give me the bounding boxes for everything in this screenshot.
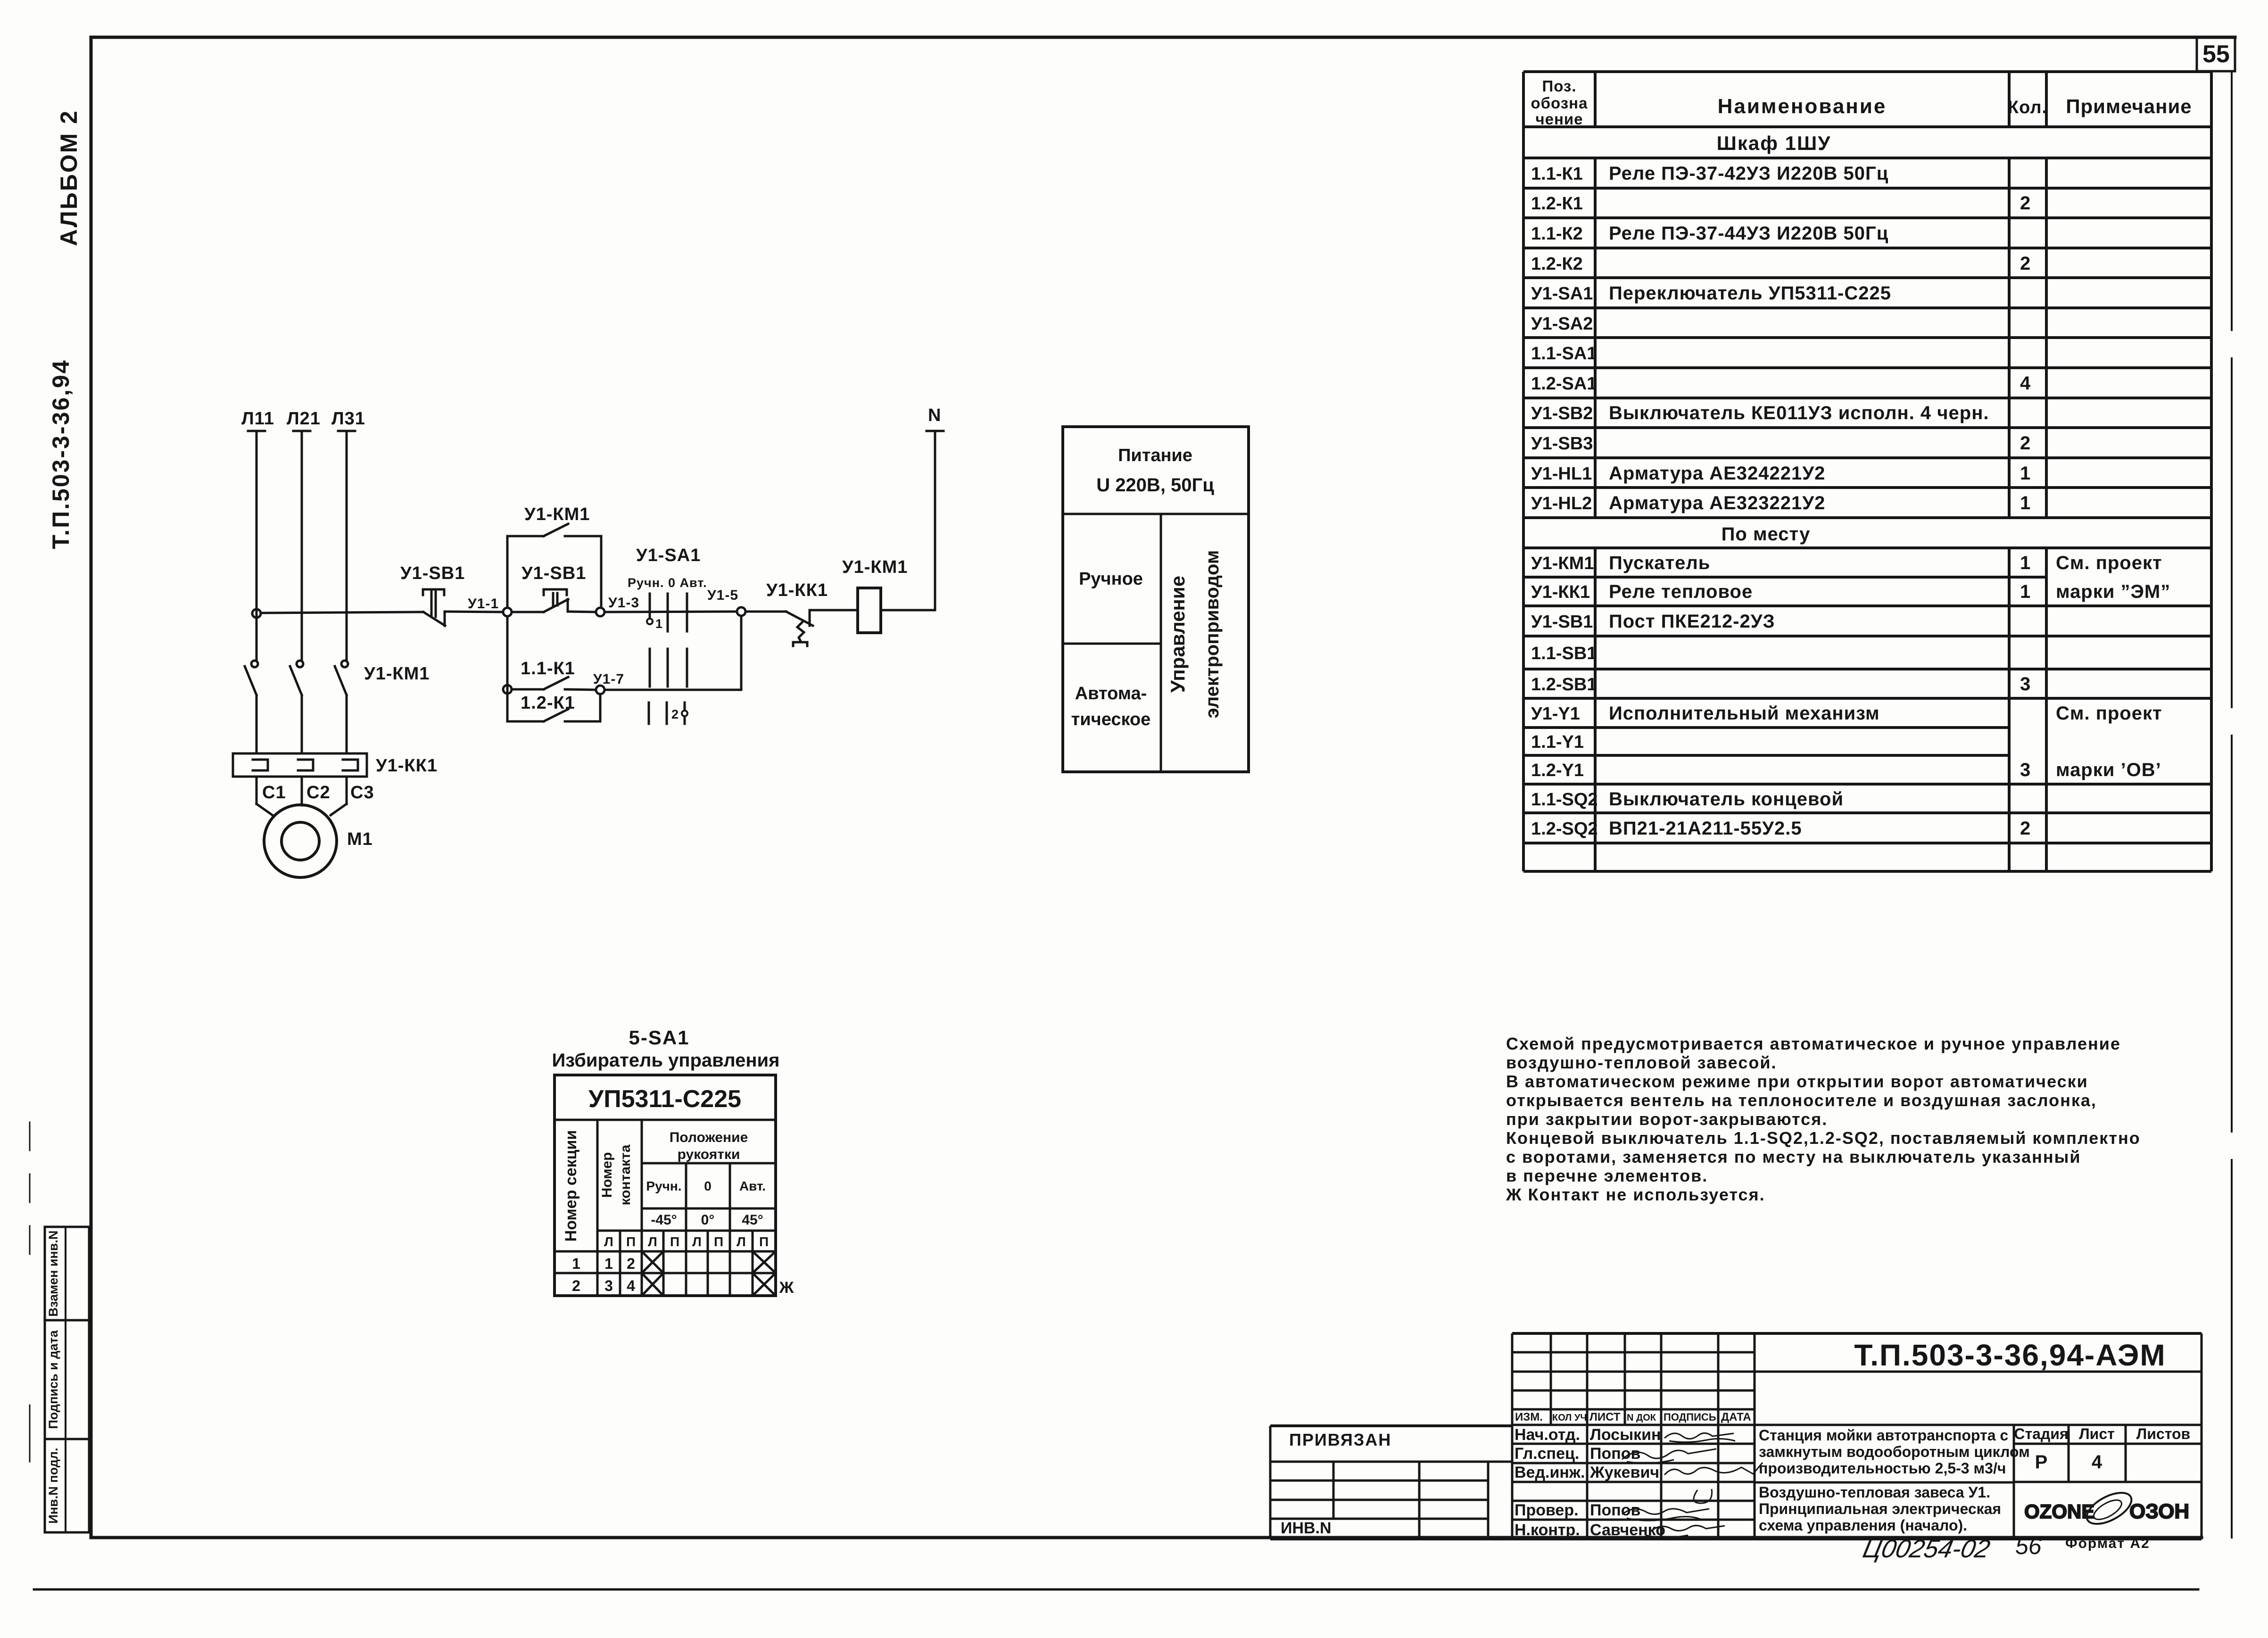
svg-text:0: 0 — [704, 1179, 712, 1193]
project name lines — [1759, 1427, 2030, 1534]
svg-text:1.1-К1: 1.1-К1 — [1531, 164, 1583, 184]
svg-text:ПОДПИСЬ: ПОДПИСЬ — [1664, 1411, 1716, 1423]
svg-text:Выключатель концевой: Выключатель концевой — [1609, 789, 1844, 810]
svg-text:Ручн.: Ручн. — [646, 1179, 681, 1193]
svg-text:Управление: Управление — [1167, 576, 1189, 693]
svg-text:Л31: Л31 — [331, 409, 365, 429]
motor M1 outer circle — [264, 805, 337, 877]
margin dashes — [29, 1122, 31, 1462]
svg-text:М1: М1 — [347, 829, 373, 849]
heater element at x=544 — [253, 760, 268, 770]
svg-text:Концевой выключатель 1.1-SQ2,1: Концевой выключатель 1.1-SQ2,1.2-SQ2, по… — [1506, 1128, 2141, 1148]
svg-text:Т.П.503-3-36,94: Т.П.503-3-36,94 — [48, 359, 74, 549]
svg-text:производительностью 2,5-3 м3/ч: производительностью 2,5-3 м3/ч — [1759, 1460, 2006, 1477]
title block grid — [1270, 1333, 2202, 1539]
wire below heater x=544 — [256, 777, 258, 804]
wire: stop button to node У1-1 — [445, 612, 503, 612]
sheet bottom border — [91, 1536, 2202, 1539]
svg-text:Ручн. 0 Авт.: Ручн. 0 Авт. — [628, 576, 707, 590]
svg-text:1.1-Y1: 1.1-Y1 — [1531, 732, 1584, 752]
wire below heater x=640 — [301, 777, 303, 804]
svg-text:Исполнительный механизм: Исполнительный механизм — [1609, 703, 1880, 724]
svg-text:1: 1 — [2020, 493, 2031, 513]
phase line Л21 — [293, 431, 310, 660]
svg-text:1.1-К1: 1.1-К1 — [521, 659, 575, 678]
svg-text:Формат А2: Формат А2 — [2065, 1536, 2150, 1551]
power-supply legend box — [1063, 427, 1249, 772]
svg-text:1.1-К2: 1.1-К2 — [1531, 224, 1583, 244]
seal-in branch: aux contact У1-КМ1 — [507, 524, 601, 608]
deck 1 closed-position circle (contact 1) — [647, 619, 653, 624]
svg-text:Шкаф 1ШУ: Шкаф 1ШУ — [1717, 132, 1831, 154]
node У1-7 — [596, 686, 604, 694]
svg-text:OZONE: OZONE — [2024, 1500, 2094, 1522]
sheet right border (broken scan line) — [2231, 73, 2233, 1538]
selector У1-SA1 deck 2 position strokes (above wire) — [650, 649, 687, 687]
svg-text:Станция мойки автотранспорта с: Станция мойки автотранспорта с — [1759, 1427, 2008, 1444]
svg-text:56: 56 — [2015, 1533, 2042, 1559]
svg-text:Реле ПЭ-37-42УЗ И220В 50Гц: Реле ПЭ-37-42УЗ И220В 50Гц — [1609, 163, 1888, 184]
svg-text:45°: 45° — [742, 1212, 763, 1228]
svg-text:Жукевич: Жукевич — [1589, 1464, 1659, 1481]
phase line Л11 — [248, 431, 265, 660]
svg-text:марки ’ОВ’: марки ’ОВ’ — [2056, 760, 2161, 780]
svg-text:С3: С3 — [350, 783, 374, 802]
svg-text:У1-7: У1-7 — [593, 671, 624, 687]
svg-text:с воротами, заменяется по мест: с воротами, заменяется по месту на выклю… — [1506, 1147, 2081, 1166]
svg-text:55: 55 — [2202, 41, 2230, 68]
wire: coil to N — [881, 609, 935, 612]
node У1-3 — [596, 608, 604, 616]
svg-text:марки ”ЭМ”: марки ”ЭМ” — [2056, 581, 2170, 602]
phase line Л31 — [338, 431, 355, 660]
svg-text:У1-КК1: У1-КК1 — [766, 580, 828, 600]
svg-text:1.2-К1: 1.2-К1 — [1531, 194, 1583, 214]
svg-text:ЛИСТ: ЛИСТ — [1589, 1411, 1621, 1423]
svg-text:Переключатель УП5311-С225: Переключатель УП5311-С225 — [1609, 283, 1891, 304]
heater element at x=735 — [343, 760, 358, 770]
svg-text:Ж Контакт не используется.: Ж Контакт не используется. — [1506, 1185, 1765, 1204]
svg-text:Автома-: Автома- — [1075, 684, 1147, 703]
svg-text:1.2-SQ2: 1.2-SQ2 — [1531, 819, 1598, 839]
wire below heater x=735 — [346, 777, 348, 804]
sheet outer bottom edge line — [34, 1588, 2198, 1591]
svg-text:Пускатель: Пускатель — [1609, 553, 1710, 573]
svg-text:У1-КМ1: У1-КМ1 — [842, 557, 908, 577]
svg-text:5-SA1: 5-SA1 — [629, 1026, 689, 1049]
svg-text:тическое: тическое — [1071, 710, 1151, 729]
svg-text:С1: С1 — [262, 783, 286, 802]
svg-text:Л: Л — [648, 1234, 657, 1249]
svg-text:1: 1 — [2020, 553, 2031, 573]
svg-text:1.2-К2: 1.2-К2 — [1531, 254, 1583, 274]
svg-text:1: 1 — [572, 1255, 580, 1272]
X marks — [642, 1251, 663, 1273]
svg-text:Л21: Л21 — [287, 409, 321, 429]
svg-text:С2: С2 — [306, 783, 331, 802]
svg-text:Авт.: Авт. — [739, 1179, 766, 1193]
svg-text:У1-КМ1: У1-КМ1 — [524, 505, 590, 524]
svg-text:-45°: -45° — [651, 1212, 677, 1228]
svg-text:П: П — [714, 1234, 723, 1249]
svg-text:4: 4 — [2092, 1452, 2102, 1473]
svg-text:Провер.: Провер. — [1515, 1501, 1579, 1519]
svg-text:У1-КК1: У1-КК1 — [376, 756, 438, 776]
svg-text:У1-SA1: У1-SA1 — [1531, 284, 1593, 304]
svg-text:N: N — [928, 405, 941, 425]
svg-text:обозна: обозна — [1531, 94, 1588, 112]
svg-text:Питание: Питание — [1118, 446, 1192, 465]
relay contact 1.1-К1 (NO) — [512, 677, 596, 690]
svg-text:чение: чение — [1535, 110, 1583, 128]
svg-text:ВП21-21А211-55У2.5: ВП21-21А211-55У2.5 — [1609, 818, 1802, 839]
svg-text:По месту: По месту — [1722, 524, 1811, 545]
svg-text:Пост ПКЕ212-2УЗ: Пост ПКЕ212-2УЗ — [1609, 611, 1775, 632]
wire: start button to node У1-3 — [568, 612, 596, 612]
svg-text:Н.контр.: Н.контр. — [1515, 1521, 1580, 1539]
pushbutton У1-SB1 (stop, NC) — [423, 589, 445, 626]
svg-text:Номер: Номер — [599, 1152, 615, 1198]
svg-text:3: 3 — [2020, 674, 2031, 695]
svg-text:Принципиальная электрическая: Принципиальная электрическая — [1759, 1500, 2001, 1517]
svg-text:Подпись и дата: Подпись и дата — [46, 1330, 60, 1429]
svg-text:Л: Л — [737, 1234, 746, 1249]
svg-text:КОЛ УЧ: КОЛ УЧ — [1552, 1413, 1587, 1423]
svg-text:Р: Р — [2035, 1452, 2048, 1473]
svg-text:1.1-SB1: 1.1-SB1 — [1531, 644, 1597, 663]
svg-text:Воздушно-тепловая завеса У1.: Воздушно-тепловая завеса У1. — [1759, 1484, 1990, 1501]
page number box — [2197, 39, 2235, 71]
svg-text:ИЗМ.: ИЗМ. — [1515, 1411, 1543, 1423]
svg-text:У1-КМ1: У1-КМ1 — [364, 664, 430, 684]
thermal relay contact У1-КК1 (NC) — [786, 610, 813, 646]
svg-text:контакта: контакта — [618, 1144, 633, 1205]
svg-text:N ДОК: N ДОК — [1627, 1413, 1656, 1423]
svg-text:Реле ПЭ-37-44УЗ И220В 50Гц: Реле ПЭ-37-44УЗ И220В 50Гц — [1609, 223, 1888, 244]
svg-text:Реле тепловое: Реле тепловое — [1609, 581, 1753, 602]
node on Л11 (control tap) — [252, 609, 261, 618]
svg-text:ОЗОН: ОЗОН — [2129, 1500, 2189, 1523]
motor feeder wires converge — [257, 804, 273, 815]
svg-text:Л11: Л11 — [241, 409, 274, 429]
contactor У1-КМ1 main contact at x=735 — [341, 661, 348, 667]
relay contact 1.2-К1 (NO) — [507, 694, 600, 721]
svg-text:Положение: Положение — [670, 1130, 748, 1145]
svg-text:2: 2 — [2020, 433, 2031, 454]
svg-text:2: 2 — [2020, 193, 2031, 214]
svg-text:1.1-SA1: 1.1-SA1 — [1531, 344, 1597, 364]
svg-text:2: 2 — [2020, 253, 2031, 274]
svg-text:0°: 0° — [701, 1212, 715, 1228]
svg-text:Лосыкин: Лосыкин — [1590, 1426, 1661, 1444]
svg-text:2: 2 — [671, 707, 679, 721]
neutral line N — [927, 431, 944, 610]
svg-text:Л: Л — [604, 1234, 613, 1249]
svg-text:Гл.спец.: Гл.спец. — [1515, 1445, 1579, 1463]
svg-text:2: 2 — [2020, 818, 2031, 839]
svg-text:У1-SA1: У1-SA1 — [636, 546, 701, 565]
pushbutton У1-SB1 (start, NO) — [544, 589, 568, 612]
svg-text:Взамен инв.N: Взамен инв.N — [46, 1231, 60, 1317]
wire: У1-5 to thermal contact — [745, 611, 786, 613]
sheet top border — [92, 36, 2235, 39]
svg-text:схема управления (начало).: схема управления (начало). — [1759, 1517, 1967, 1534]
svg-text:Ж: Ж — [779, 1279, 794, 1297]
svg-text:См. проект: См. проект — [2056, 703, 2162, 724]
svg-text:в перечне элементов.: в перечне элементов. — [1506, 1166, 1708, 1185]
svg-text:У1-HL2: У1-HL2 — [1531, 494, 1592, 513]
svg-text:В автоматическом режиме при от: В автоматическом режиме при открытии вор… — [1506, 1072, 2088, 1091]
svg-text:Лист: Лист — [2079, 1425, 2115, 1442]
svg-text:Т.П.503-3-36,94-АЭМ: Т.П.503-3-36,94-АЭМ — [1854, 1338, 2166, 1372]
svg-text:АЛЬБОМ 2: АЛЬБОМ 2 — [56, 109, 82, 246]
svg-text:УП5311-С225: УП5311-С225 — [588, 1085, 741, 1113]
svg-text:Ц00254-02: Ц00254-02 — [1860, 1535, 1992, 1563]
svg-text:См. проект: См. проект — [2056, 553, 2162, 573]
parts table grid — [1523, 72, 2211, 871]
svg-text:Л: Л — [692, 1234, 702, 1249]
svg-text:1.2-SB1: 1.2-SB1 — [1531, 675, 1597, 695]
automatic branch vertical from У1-1 — [506, 616, 509, 721]
wire: node to stop button — [261, 612, 423, 613]
svg-text:открывается вентель на теплоно: открывается вентель на теплоносителе и в… — [1506, 1091, 2097, 1110]
margin box "Подпись и дата" — [45, 1320, 89, 1439]
svg-text:У1-КК1: У1-КК1 — [1531, 582, 1590, 602]
svg-text:Нач.отд.: Нач.отд. — [1515, 1426, 1580, 1444]
svg-text:1.2-SA1: 1.2-SA1 — [1531, 374, 1597, 394]
svg-text:1.1-SQ2: 1.1-SQ2 — [1531, 790, 1598, 810]
svg-text:Инв.N подл.: Инв.N подл. — [46, 1448, 60, 1523]
svg-text:Кол.: Кол. — [2008, 98, 2047, 117]
svg-text:1: 1 — [655, 617, 663, 631]
selector deck 2 strokes below wire + closed circle (contact 2) — [649, 703, 685, 724]
svg-text:Вед.инж.: Вед.инж. — [1515, 1464, 1585, 1481]
svg-text:У1-SB1: У1-SB1 — [400, 563, 465, 583]
svg-text:У1-SB1: У1-SB1 — [1531, 612, 1593, 632]
svg-text:Ручное: Ручное — [1079, 569, 1143, 589]
svg-text:1: 1 — [604, 1255, 613, 1272]
wire: У1-7 through selector deck 2 to У1-5 — [604, 616, 741, 690]
margin box "Инв.N подл." — [45, 1439, 89, 1532]
sheet left border — [90, 37, 93, 1538]
svg-text:Арматура АЕ323221У2: Арматура АЕ323221У2 — [1609, 493, 1825, 513]
svg-text:Избиратель управления: Избиратель управления — [552, 1050, 780, 1071]
node У1-1 — [503, 608, 512, 616]
svg-text:Поз.: Поз. — [1542, 77, 1576, 95]
node at 1.1-K1 branch — [503, 685, 512, 694]
selector У1-SA1 deck 1 position strokes — [650, 594, 687, 631]
contactor У1-КМ1 main contact at x=640 — [297, 661, 303, 667]
wire: У1-3 through selector to У1-5 — [604, 612, 737, 612]
svg-text:электроприводом: электроприводом — [1202, 550, 1223, 719]
svg-text:Примечание: Примечание — [2066, 95, 2192, 117]
selector table grid — [555, 1075, 776, 1296]
svg-text:Стадия: Стадия — [2014, 1425, 2068, 1442]
svg-text:ИНВ.N: ИНВ.N — [1281, 1519, 1332, 1537]
svg-text:2: 2 — [627, 1255, 635, 1272]
svg-text:1: 1 — [2020, 463, 2031, 484]
svg-text:У1-1: У1-1 — [468, 596, 499, 612]
contactor У1-КМ1 main contact at x=544 — [251, 661, 258, 667]
signatures (scribbles) — [1622, 1433, 1763, 1538]
svg-text:1.2-К1: 1.2-К1 — [521, 693, 575, 713]
notes text block — [1506, 1034, 2141, 1204]
svg-text:Схемой предусмотривается автом: Схемой предусмотривается автоматическое … — [1506, 1034, 2121, 1053]
svg-text:3: 3 — [2020, 760, 2031, 780]
svg-text:Арматура АЕ324221У2: Арматура АЕ324221У2 — [1609, 463, 1825, 484]
svg-text:У1-Y1: У1-Y1 — [1531, 704, 1580, 724]
svg-text:Номер секции: Номер секции — [562, 1130, 580, 1242]
svg-text:4: 4 — [2020, 373, 2031, 394]
svg-text:замкнутым водооборотным циклом: замкнутым водооборотным циклом — [1759, 1443, 2030, 1460]
margin box "Взамен инв.N" — [45, 1227, 89, 1320]
svg-text:воздушно-тепловой завесой.: воздушно-тепловой завесой. — [1506, 1053, 1777, 1072]
OZONE stamp — [2024, 1487, 2189, 1530]
svg-text:ДАТА: ДАТА — [1721, 1411, 1751, 1423]
motor M1 inner circle — [281, 822, 319, 860]
svg-text:П: П — [670, 1234, 679, 1249]
svg-text:3: 3 — [604, 1277, 613, 1294]
handwritten inventory number — [1860, 1533, 2041, 1563]
svg-text:У1-SB1: У1-SB1 — [521, 563, 586, 583]
wire: thermal contact to coil — [810, 609, 858, 612]
svg-text:при закрытии ворот-закрываются: при закрытии ворот-закрываются. — [1506, 1109, 1828, 1129]
svg-text:Попов: Попов — [1590, 1501, 1640, 1519]
svg-text:4: 4 — [627, 1277, 635, 1294]
svg-text:П: П — [626, 1234, 636, 1249]
svg-text:У1-3: У1-3 — [608, 595, 639, 611]
svg-text:У1-5: У1-5 — [707, 587, 738, 603]
svg-text:Листов: Листов — [2136, 1425, 2190, 1442]
heater element at x=640 — [298, 760, 313, 770]
contactor coil У1-КМ1 — [858, 588, 881, 633]
svg-text:У1-SA2: У1-SA2 — [1531, 314, 1593, 334]
svg-text:У1-SB3: У1-SB3 — [1531, 434, 1593, 454]
svg-text:ПРИВЯЗАН: ПРИВЯЗАН — [1289, 1430, 1391, 1449]
selector table title — [552, 1026, 780, 1071]
svg-text:1: 1 — [2020, 581, 2031, 602]
svg-text:У1-HL1: У1-HL1 — [1531, 464, 1592, 484]
svg-text:1.2-Y1: 1.2-Y1 — [1531, 761, 1584, 780]
svg-text:У1-КМ1: У1-КМ1 — [1531, 554, 1594, 573]
svg-text:2: 2 — [572, 1277, 580, 1294]
thermal relay У1-КК1 heater box — [233, 753, 367, 777]
svg-text:Выключатель КЕ011УЗ исполн. 4: Выключатель КЕ011УЗ исполн. 4 черн. — [1609, 403, 1989, 423]
svg-text:рукоятки: рукоятки — [678, 1147, 740, 1162]
svg-text:Наименование: Наименование — [1718, 95, 1887, 118]
svg-text:П: П — [759, 1234, 769, 1249]
wire: У1-1 to start button — [512, 611, 544, 613]
svg-text:U 220В, 50Гц: U 220В, 50Гц — [1096, 475, 1214, 496]
svg-text:У1-SB2: У1-SB2 — [1531, 404, 1593, 423]
node У1-5 — [737, 607, 745, 616]
